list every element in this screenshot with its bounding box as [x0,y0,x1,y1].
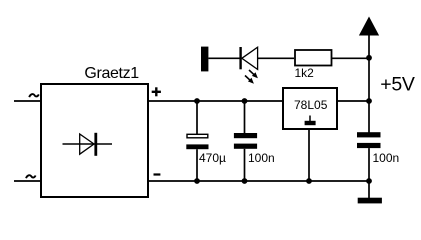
svg-text:100n: 100n [248,151,275,165]
junction at C1 bottom [194,178,200,184]
junction at regulator output / +5V rail [366,98,372,104]
wire C1 bottom lead [196,149,198,181]
svg-text:1k2: 1k2 [295,66,315,80]
svg-text:+5V: +5V [380,74,415,96]
voltage regulator U1 78L05 body [283,88,337,129]
LED D1 [241,47,258,69]
wire C1 top lead [196,101,198,135]
resistor R1 body [295,50,332,66]
label ~ (bottom AC input) [26,175,36,178]
LED panel terminal (connector bar) [201,47,208,72]
wire resistor R1 to +5V rail [332,57,370,59]
label ~ (top AC input) [29,94,39,97]
junction at regulator ground pin [306,178,312,184]
ground symbol [358,198,382,204]
svg-text:470µ: 470µ [199,151,226,165]
capacitor C1 470µ (electrolytic, + plate hollow) [186,134,208,149]
ground rail wire (bridge - output to ground) [148,180,369,182]
wire ground stem [368,181,370,198]
pin label - (bridge negative output) [154,173,161,175]
wire AC input bottom [14,180,41,182]
wire AC input top [14,100,41,102]
svg-text:78L05: 78L05 [294,98,328,112]
junction at C2 top [242,98,248,104]
junction at C1 top [194,98,200,104]
wire regulator ground pin [308,129,310,181]
wire +5V rail vertical (arrow to C3) [368,35,370,133]
wire +V rail (bridge + output to regulator input) [148,100,283,102]
wire C2 top lead [244,101,246,134]
ground tab inside 78L05 [305,116,316,126]
bridge rectifier Graetz1 body [41,84,148,197]
wire C3 bottom lead [368,148,370,181]
svg-text:Graetz1: Graetz1 [84,65,139,82]
diode symbol inside Graetz1 [63,133,113,156]
junction at C3 bottom / ground [366,178,372,184]
junction at R1 / +5V rail [366,55,372,61]
+5V power arrow [359,17,379,36]
wire regulator output to +5V rail [337,100,370,102]
pin label + (bridge positive output) [152,87,161,96]
capacitor C3 100n [357,132,381,148]
LED emission arrows [245,70,258,84]
capacitor C2 100n [234,133,257,149]
junction at C2 bottom [242,178,248,184]
wire C2 bottom lead [244,149,246,181]
svg-text:100n: 100n [373,151,400,165]
wire terminal to LED cathode [208,57,240,59]
wire LED anode to resistor R1 [258,57,294,59]
